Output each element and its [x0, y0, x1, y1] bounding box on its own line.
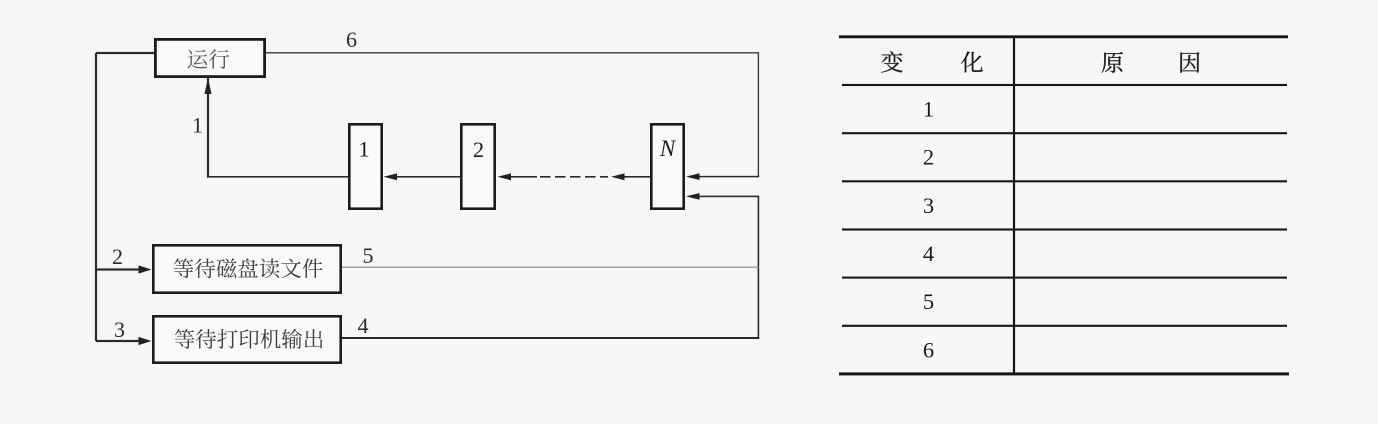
- table rule 2: [842, 132, 1287, 134]
- box queue 1: [349, 124, 381, 208]
- table header 原 因: [1102, 52, 1200, 73]
- wire left vertical bus: [95, 53, 97, 341]
- wire arrow 1 up into 运行: [207, 78, 209, 178]
- table column divider: [1013, 37, 1015, 374]
- svg-text:3: 3: [923, 193, 934, 218]
- svg-text:5: 5: [363, 243, 374, 268]
- text 运行: [188, 49, 230, 69]
- wire right vertical bus (4,5): [758, 196, 760, 339]
- svg-text:1: 1: [923, 97, 934, 122]
- wire arrow into N right (lower): [698, 196, 759, 198]
- table header 变 化: [881, 51, 982, 72]
- table rule 4: [842, 228, 1287, 230]
- wire arrow into N right (upper): [698, 176, 759, 178]
- wire arrow queue2 to queue1: [397, 176, 461, 178]
- wire 5 from disk box: [342, 267, 759, 268]
- wire arrow 3 into printer box: [96, 340, 141, 342]
- svg-text:4: 4: [923, 241, 934, 266]
- svg-text:2: 2: [473, 137, 484, 162]
- table bottom rule: [839, 372, 1289, 375]
- svg-text:N: N: [659, 136, 677, 161]
- svg-text:6: 6: [346, 27, 357, 52]
- text 等待磁盘读文件: [174, 258, 323, 278]
- box queue 2: [461, 124, 494, 208]
- svg-text:2: 2: [112, 244, 123, 269]
- svg-text:6: 6: [923, 337, 934, 362]
- wire from 运行 left to left bus: [96, 52, 154, 54]
- svg-text:3: 3: [114, 317, 125, 342]
- wire arrow from N toward queue2 (solid+dash): [511, 176, 538, 178]
- table top rule: [839, 35, 1288, 38]
- box queue N: [651, 124, 683, 208]
- box 等待打印机输出 (wait printer out): [153, 316, 340, 362]
- wire arrow 2 into disk box: [96, 268, 141, 270]
- wire 6 top: [266, 52, 759, 53]
- svg-text:1: 1: [358, 136, 369, 161]
- text 等待打印机输出: [175, 329, 323, 349]
- wire 4 from printer box: [342, 337, 759, 339]
- table rule 6: [842, 325, 1287, 327]
- wire from dispatch corner to queue 1: [207, 176, 348, 178]
- box 运行 (running): [155, 39, 264, 76]
- table rule 5: [842, 277, 1287, 279]
- table rule 1: [842, 84, 1287, 86]
- box 等待磁盘读文件 (wait disk read): [153, 245, 340, 292]
- svg-text:4: 4: [358, 313, 369, 338]
- table rule 3: [842, 180, 1287, 182]
- wire 6 right vertical down to N: [758, 53, 759, 177]
- svg-text:5: 5: [923, 289, 934, 314]
- svg-text:2: 2: [923, 145, 934, 170]
- svg-text:1: 1: [192, 112, 203, 137]
